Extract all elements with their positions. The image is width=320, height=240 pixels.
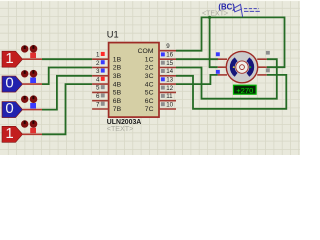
svg-text:COM: COM bbox=[138, 48, 154, 55]
logic indicator square pin 11 bbox=[161, 94, 165, 98]
wire state2 to pin 2B bbox=[42, 68, 92, 85]
logic indicator square pin 5 bbox=[101, 85, 105, 89]
pin 16 (1C) stub bbox=[159, 58, 176, 60]
svg-text:15: 15 bbox=[166, 60, 173, 67]
svg-text:6B: 6B bbox=[113, 98, 122, 105]
logic indicator square pin 16 bbox=[161, 52, 165, 56]
svg-text:3B: 3B bbox=[113, 73, 122, 80]
motor angle display +270 bbox=[234, 85, 257, 95]
pin 12 (5C) stub bbox=[159, 91, 176, 93]
pin of logic state 1 bbox=[23, 58, 42, 60]
wire state4 to pin 4B bbox=[42, 84, 92, 134]
op IC U1 ULN2003A body bbox=[109, 43, 159, 118]
logic indicator square pin 7 bbox=[101, 102, 105, 106]
svg-text:9: 9 bbox=[166, 43, 170, 50]
pin 2 (2B) stub bbox=[92, 67, 109, 69]
svg-text:3C: 3C bbox=[145, 73, 154, 80]
wire 3C to motor coil D (right bottom) bbox=[176, 75, 286, 109]
motor left pin y=67.2 bbox=[218, 66, 227, 68]
svg-text:4C: 4C bbox=[145, 81, 154, 88]
svg-text:U1: U1 bbox=[107, 29, 119, 39]
rotation indicator icon bbox=[234, 4, 260, 16]
svg-text:1B: 1B bbox=[113, 56, 122, 63]
svg-text:5B: 5B bbox=[113, 90, 122, 97]
pin 5 (5B) stub bbox=[92, 91, 109, 93]
svg-text:2C: 2C bbox=[145, 65, 154, 72]
logic indicator square pin 6 bbox=[101, 93, 105, 97]
motor right pin y=74.9 bbox=[257, 74, 267, 76]
motor right pin y=67.2 bbox=[257, 66, 267, 68]
svg-text:+270: +270 bbox=[236, 86, 253, 95]
logic indicator square pin 13 bbox=[161, 77, 165, 81]
wire COM net: pin9 up and across the top to motor right common bbox=[176, 17, 285, 67]
logic indicator square pin 4 bbox=[101, 77, 105, 81]
wire state1 to pin 1B bbox=[42, 58, 92, 60]
pin 7 (7B) stub bbox=[92, 108, 109, 110]
svg-text:1C: 1C bbox=[145, 56, 154, 63]
junction node on COM net bbox=[208, 16, 211, 19]
svg-text:<TEXT>: <TEXT> bbox=[107, 125, 133, 133]
logic state input 0 (LOGICSTATE #3) bbox=[2, 95, 37, 117]
wire 2C to motor coil C (right top) bbox=[176, 59, 277, 98]
pin of logic state 4 bbox=[23, 133, 42, 135]
svg-text:<TEXT>: <TEXT> bbox=[202, 10, 228, 17]
pin 1 (1B) stub bbox=[92, 58, 109, 60]
logic state input 1 (LOGICSTATE #4) bbox=[2, 120, 37, 142]
stepper motor M body bbox=[226, 51, 257, 82]
motor right pin y=59.2 bbox=[257, 58, 267, 60]
svg-text:7: 7 bbox=[96, 101, 100, 108]
wire 1C to motor coil A (left top) bbox=[176, 58, 218, 60]
logic state input 0 (LOGICSTATE #2) bbox=[2, 70, 37, 92]
svg-text:1: 1 bbox=[5, 125, 13, 142]
logic indicator square pin 15 bbox=[161, 61, 165, 65]
svg-text:5: 5 bbox=[96, 85, 100, 92]
indicator square motor right bottom (gray) bbox=[266, 68, 270, 72]
pin 15 (2C) stub bbox=[159, 67, 176, 69]
motor left pin y=59.2 bbox=[218, 58, 227, 60]
svg-text:6C: 6C bbox=[145, 98, 154, 105]
pin 4 (4B) stub bbox=[92, 83, 109, 85]
pin of logic state 3 bbox=[23, 109, 42, 111]
wire COM branch down to motor left common bbox=[210, 17, 218, 67]
svg-text:1: 1 bbox=[96, 52, 100, 59]
svg-text:3: 3 bbox=[96, 68, 100, 75]
pin 10 (7C) stub bbox=[159, 108, 176, 110]
pin 11 (6C) stub bbox=[159, 100, 176, 102]
svg-text:16: 16 bbox=[166, 52, 173, 59]
pin 9 (COM) stub bbox=[159, 50, 176, 52]
svg-text:2B: 2B bbox=[113, 65, 122, 72]
motor left pin y=74.9 bbox=[218, 74, 227, 76]
indicator square motor right top (gray) bbox=[266, 51, 270, 55]
indicator square motor left bottom (blue) bbox=[216, 70, 220, 74]
svg-text:5C: 5C bbox=[145, 90, 154, 97]
svg-text:7C: 7C bbox=[145, 106, 154, 113]
wire state3 to pin 3B bbox=[42, 76, 92, 110]
svg-text:4: 4 bbox=[96, 76, 100, 83]
pin 6 (6B) stub bbox=[92, 100, 109, 102]
svg-text:2: 2 bbox=[96, 60, 100, 67]
indicator square motor left top (blue) bbox=[216, 52, 220, 56]
svg-text:7B: 7B bbox=[113, 106, 122, 113]
logic indicator square pin 12 bbox=[161, 86, 165, 90]
pin of logic state 2 bbox=[23, 83, 42, 85]
svg-text:12: 12 bbox=[166, 85, 173, 92]
logic indicator square pin 14 bbox=[161, 69, 165, 73]
logic state input 1 (LOGICSTATE #1) bbox=[2, 45, 37, 67]
svg-text:13: 13 bbox=[166, 77, 173, 84]
logic indicator square pin 3 bbox=[101, 69, 105, 73]
svg-text:14: 14 bbox=[166, 68, 173, 75]
logic indicator square pin 2 bbox=[101, 60, 105, 64]
svg-text:10: 10 bbox=[166, 101, 173, 108]
svg-text:6: 6 bbox=[96, 93, 100, 100]
pin 3 (3B) stub bbox=[92, 75, 109, 77]
pin 13 (4C) stub bbox=[159, 83, 176, 85]
wire 4C to motor coil B (left bottom) bbox=[176, 75, 218, 84]
svg-text:0: 0 bbox=[5, 100, 13, 117]
svg-text:1: 1 bbox=[5, 50, 13, 67]
svg-text:0: 0 bbox=[5, 75, 13, 92]
svg-text:11: 11 bbox=[166, 93, 173, 100]
logic indicator square pin 10 bbox=[161, 102, 165, 106]
pin 14 (3C) stub bbox=[159, 75, 176, 77]
svg-text:4B: 4B bbox=[113, 81, 122, 88]
logic indicator square pin 1 bbox=[101, 52, 105, 56]
